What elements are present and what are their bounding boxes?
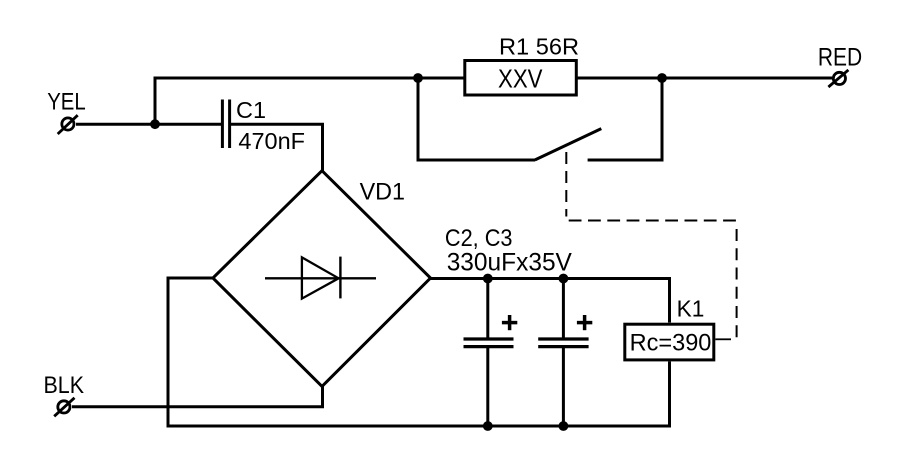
- wire junction up to top rail, rail to R1 left: [155, 78, 464, 124]
- wire BLK terminal to bridge bottom vertex: [72, 386, 323, 407]
- svg-text:C1: C1: [236, 97, 266, 123]
- node dot DC+ bus at C2: [483, 274, 493, 284]
- capacitor C3: [538, 279, 588, 427]
- node dot left of R1: [413, 73, 423, 83]
- node dot bottom bus at C3: [559, 421, 569, 431]
- svg-text:BLK: BLK: [44, 372, 85, 399]
- svg-text:470nF: 470nF: [238, 128, 305, 154]
- terminal BLK: [54, 398, 74, 417]
- terminal RED: [828, 70, 848, 87]
- wire YEL terminal to C1 left plate: [76, 123, 221, 126]
- svg-text:VD1: VD1: [360, 179, 405, 206]
- plus sign C3: [577, 315, 592, 330]
- switch blade K1.1: [535, 129, 602, 160]
- resistor R1 box: [465, 61, 577, 96]
- svg-text:R1 56R: R1 56R: [499, 34, 579, 60]
- dashed linkage from switch blade: [566, 152, 737, 338]
- svg-text:XXV: XXV: [498, 64, 543, 94]
- capacitor C2: [464, 279, 514, 427]
- svg-text:Rc=390: Rc=390: [630, 330, 712, 357]
- svg-text:RED: RED: [818, 43, 862, 71]
- wire DC- : bridge left vertex, down, bottom bus, up to relay bottom: [168, 278, 670, 426]
- svg-text:K1: K1: [677, 296, 705, 322]
- bridge rectifier VD1 diamond: [213, 171, 431, 387]
- node dot DC+ bus at C3: [559, 274, 569, 284]
- node dot right of R1: [657, 73, 667, 83]
- terminal YEL: [58, 115, 78, 134]
- plus sign C2: [502, 315, 517, 330]
- svg-text:330uFx35V: 330uFx35V: [447, 249, 573, 277]
- capacitor C1 plates: [222, 100, 229, 149]
- wire left rail-drop to switch pivot: [418, 78, 535, 160]
- wire C1 right plate to bridge top vertex: [231, 124, 323, 172]
- relay K1 coil box: [625, 324, 714, 360]
- wire DC+ bus: bridge right vertex to relay top: [431, 279, 670, 323]
- node dot bottom bus at C2: [483, 421, 493, 431]
- wire switch right contact up to rail: [588, 78, 662, 160]
- node junction YEL/C1/top-rail: [150, 119, 160, 129]
- tick from relay box to linkage: [715, 338, 731, 340]
- svg-text:YEL: YEL: [47, 89, 85, 116]
- wire top rail from R1 to RED terminal: [577, 77, 832, 80]
- diode symbol inside VD1: [265, 257, 376, 299]
